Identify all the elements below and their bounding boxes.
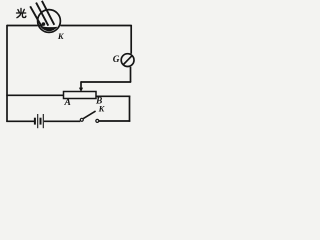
- svg-text:G: G: [113, 55, 120, 65]
- wiper arrowhead: [79, 88, 83, 92]
- wire rheostat rail right: [96, 95, 130, 97]
- light ray 2: [36, 3, 48, 26]
- wire top rail: [7, 25, 132, 27]
- rheostat body: [64, 92, 97, 99]
- switch lever: [83, 111, 95, 119]
- wire rheostat rail left: [6, 94, 63, 96]
- phototube anode dot: [42, 22, 46, 26]
- wire right vertical upper: [130, 25, 132, 54]
- switch contact left: [80, 118, 83, 121]
- phototube anode lead: [38, 25, 43, 27]
- wire bottom rail: [6, 120, 130, 122]
- battery cell bar long 2: [42, 114, 44, 128]
- wire wiper vertical: [80, 81, 82, 88]
- wire left vertical: [6, 25, 8, 122]
- background: [0, 0, 139, 131]
- battery cell bar long 1: [37, 114, 39, 128]
- galvanometer G: [121, 54, 134, 67]
- wire G-to-wiper horizontal: [81, 81, 131, 83]
- light ray 3: [42, 1, 54, 25]
- wire galvanometer to corner: [130, 67, 132, 82]
- label 光: [17, 8, 26, 17]
- battery cell bar short 1: [34, 118, 36, 125]
- switch contact right: [96, 119, 99, 122]
- battery cell bar short 2: [40, 118, 42, 125]
- phototube cathode: [40, 26, 58, 31]
- wire right vertical lower: [129, 96, 131, 122]
- light ray 1: [30, 6, 42, 27]
- phototube envelope: [38, 10, 61, 33]
- galvanometer needle: [123, 56, 132, 65]
- svg-text:A: A: [64, 98, 71, 108]
